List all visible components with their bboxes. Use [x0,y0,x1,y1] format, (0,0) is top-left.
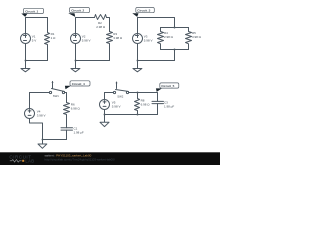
svg-text:Circuit_1: Circuit_1 [25,9,38,13]
ground circuit2 [71,61,80,72]
ground circuit3 [133,61,142,72]
node circuit5 ground tap [104,114,106,116]
svg-text:http://circuitlab.com/c/7mv24q: http://circuitlab.com/c/7mv24q/phy51103-… [45,157,115,161]
svg-text:1.98 μF: 1.98 μF [74,130,84,134]
wire circuit2 top rail right [107,18,110,32]
svg-text:5 V: 5 V [32,38,37,42]
wire circuit3 left rail [137,18,139,34]
wire circuit4 left rail [29,93,31,109]
wire circuit4 top right corner [65,93,67,103]
node circuit3 block bottom junction [174,49,176,51]
voltage source V2 [71,34,91,44]
wire circuit5 left rail [104,93,106,100]
resistor R3 [107,32,123,61]
svg-text:1.98 μF: 1.98 μF [164,104,174,108]
node label flag Circuit_4 [65,86,71,89]
resistor R5 [186,28,202,50]
switch SW1 [49,81,64,99]
node circuit4 ground tap [42,139,44,141]
label box Circuit_3 [136,8,155,13]
wire circuit2 left rail [75,18,77,34]
wire circuit3 block top rail [161,27,189,29]
label box Circuit_2 [70,8,90,13]
node circuit2 ground tap [75,60,77,62]
resistor R4 [158,28,174,50]
svg-text:LAB: LAB [25,159,34,164]
label box Circuit_1 [24,8,44,13]
wire circuit2 left lower [75,44,77,61]
voltage source V3 [133,34,153,44]
wire circuit5 top rail right [129,93,158,102]
svg-text:SW2: SW2 [117,95,124,99]
wire circuit1 left rail [25,18,27,34]
wire circuit2 top rail left [76,17,95,19]
resistor R6 [64,103,81,128]
wire circuit3 top rail [138,18,175,28]
wire circuit5 left lower [104,110,106,115]
svg-text:2.98 Ω: 2.98 Ω [164,35,174,39]
node circuit5 R8 bottom junction [137,114,139,116]
footer credit line [45,153,115,161]
svg-text:5.98 V: 5.98 V [112,105,121,109]
svg-text:5.98 V: 5.98 V [144,38,153,42]
wire circuit4 bottom rail [43,139,67,141]
wire circuit1 bottom rail [26,60,48,62]
wire circuit2 bottom rail [76,60,110,62]
capacitor C3 [152,100,174,114]
resistor R1 [45,18,57,61]
wire circuit1 top rail [26,17,48,19]
wire circuit3 center down [174,50,176,61]
svg-text:Circuit_3: Circuit_3 [137,9,150,13]
ground circuit1 [21,61,30,72]
footer bar [0,152,220,165]
capacitor C1 [61,126,84,139]
node label flag Circuit_1 [21,14,27,17]
node label flag Circuit_3 [132,13,138,17]
svg-text:6.98 Ω: 6.98 Ω [141,103,151,107]
wire circuit3 bottom rail [138,60,175,62]
svg-text:3.98 Ω: 3.98 Ω [192,35,202,39]
resistor R2 [95,15,107,29]
svg-text:5.98 V: 5.98 V [82,38,91,42]
voltage source V5 [100,100,121,110]
svg-text:3.98 V: 3.98 V [37,113,46,117]
svg-text:Circuit_2: Circuit_2 [71,9,84,13]
node circuit1 ground tap [25,60,27,62]
node circuit5 R8 top junction [137,92,139,94]
voltage source V1 [21,34,37,44]
label box Circuit_5 [160,83,179,88]
node label flag Circuit_5 [156,88,162,92]
node circuit3 block top junction [174,27,176,29]
wire circuit4 top rail [30,92,50,94]
wire circuit3 block bottom rail [161,49,189,51]
node label flag Circuit_2 [68,13,75,17]
svg-text:1 Ω: 1 Ω [51,36,57,40]
wire circuit3 left lower [137,44,139,61]
wire circuit1 left lower [25,44,27,61]
voltage source V4 [25,109,46,119]
svg-text:SW1: SW1 [53,94,60,98]
svg-text:2.98 Ω: 2.98 Ω [96,25,106,29]
wire circuit4 source to ground elbow [30,119,43,140]
svg-text:Circuit_5: Circuit_5 [161,84,174,88]
wire circuit5 top rail left [105,92,114,94]
ground circuit5 [100,115,109,127]
node circuit3 ground tap [137,60,139,62]
svg-text:3.98 Ω: 3.98 Ω [113,36,123,40]
ground circuit4 [38,140,47,149]
label box Circuit_4 [70,81,90,86]
svg-text:Circuit_4: Circuit_4 [72,82,85,86]
svg-text:6.98 Ω: 6.98 Ω [71,107,81,111]
switch SW2 [113,81,128,99]
wire circuit5 bottom rail [105,114,158,116]
resistor R8 [135,93,151,115]
CircuitLab logo [9,154,34,163]
